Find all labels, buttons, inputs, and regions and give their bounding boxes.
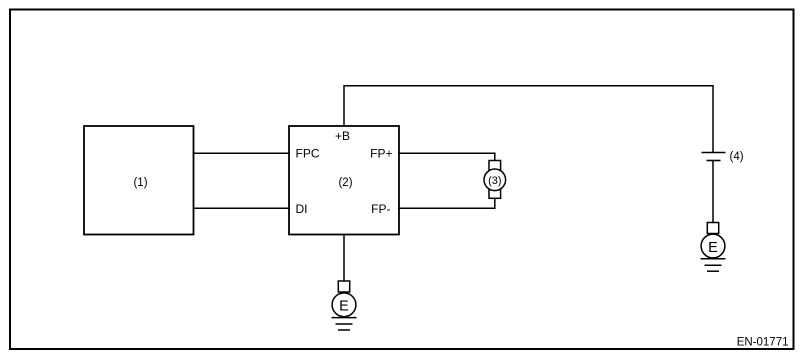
connector square bbox=[707, 223, 718, 234]
svg-text:DI: DI bbox=[296, 202, 308, 216]
circle E bbox=[701, 234, 725, 258]
battery (4) bbox=[702, 151, 744, 163]
battery plate short bbox=[707, 160, 721, 162]
wire +B: up from box2 and across to battery bbox=[344, 86, 713, 152]
svg-text:E: E bbox=[339, 299, 349, 315]
svg-text:FP-: FP- bbox=[371, 202, 390, 216]
motor body circle bbox=[484, 169, 506, 191]
wire battery to ground connector bbox=[712, 161, 714, 223]
box (2) fuel pump controller bbox=[289, 126, 399, 235]
svg-text:FP+: FP+ bbox=[370, 147, 392, 161]
wire box2 bottom to ground connector bbox=[343, 235, 345, 282]
wire FPC: box1 to box2 bbox=[193, 152, 291, 154]
ground hatch lines bbox=[701, 258, 726, 260]
svg-text:+B: +B bbox=[335, 129, 350, 143]
box (1) ECM bbox=[84, 126, 194, 235]
wire FP+: box2 to motor top bbox=[398, 153, 495, 161]
svg-text:EN-01771: EN-01771 bbox=[737, 336, 789, 348]
terminal bottom of motor bbox=[489, 189, 501, 199]
ground hatch lines bbox=[332, 317, 357, 319]
svg-text:FPC: FPC bbox=[296, 147, 320, 161]
svg-text:(1): (1) bbox=[133, 177, 147, 189]
svg-text:E: E bbox=[708, 240, 718, 256]
battery plate long bbox=[702, 152, 726, 154]
ground E below box2 bbox=[332, 281, 357, 330]
wire DI: box1 to box2 bbox=[193, 207, 291, 209]
svg-text:(2): (2) bbox=[338, 177, 352, 189]
motor (3) fuel pump bbox=[484, 161, 506, 199]
wire FP-: motor bottom to box2 bbox=[398, 198, 495, 208]
connector square bbox=[338, 281, 349, 292]
ground E right bbox=[701, 223, 726, 272]
svg-text:(4): (4) bbox=[730, 151, 744, 163]
terminal top of motor bbox=[489, 161, 501, 171]
circle E bbox=[332, 293, 356, 317]
svg-text:(3): (3) bbox=[488, 175, 501, 187]
